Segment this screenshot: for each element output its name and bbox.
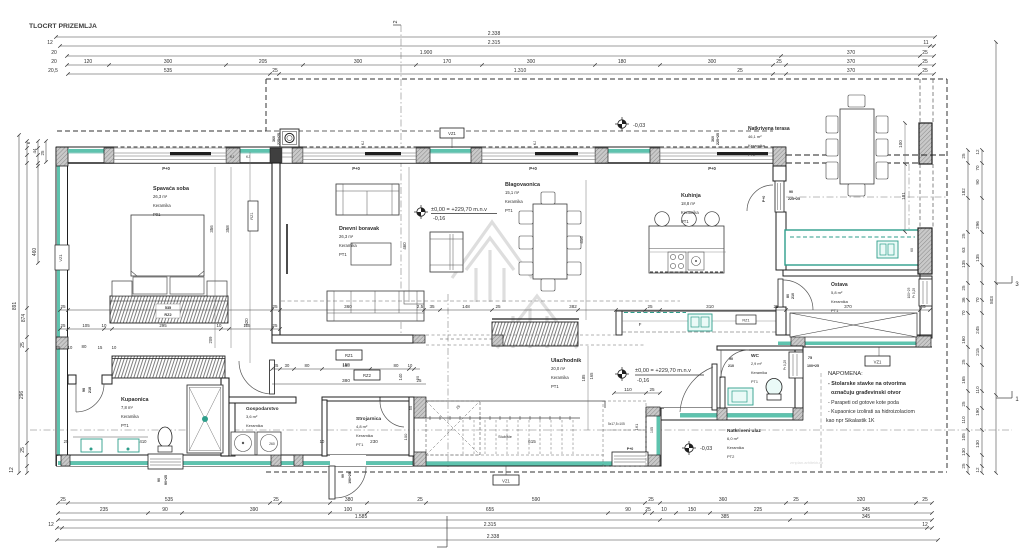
svg-text:110: 110 xyxy=(975,386,980,394)
svg-text:360: 360 xyxy=(344,304,352,309)
svg-text:25: 25 xyxy=(793,497,799,503)
wc door xyxy=(721,350,749,378)
svg-text:358: 358 xyxy=(225,225,230,233)
bottom outer wall xyxy=(56,454,426,456)
svg-text:120: 120 xyxy=(84,59,93,65)
svg-text:Keramika: Keramika xyxy=(246,423,264,428)
watermark logo xyxy=(452,222,577,348)
svg-text:RZ1: RZ1 xyxy=(742,319,749,323)
svg-text:Kuhinja: Kuhinja xyxy=(681,193,702,199)
svg-text:360: 360 xyxy=(711,136,715,142)
RZ boxes hall xyxy=(336,350,362,360)
svg-text:380: 380 xyxy=(342,378,350,384)
svg-text:WC: WC xyxy=(751,353,760,359)
svg-text:380: 380 xyxy=(345,497,354,503)
vertical dim hall xyxy=(587,346,589,430)
svg-text:296: 296 xyxy=(19,391,25,400)
svg-text:100+25: 100+25 xyxy=(807,364,819,368)
svg-text:25: 25 xyxy=(920,304,926,309)
elevation marker living xyxy=(414,211,428,213)
top dimension chain xyxy=(56,36,935,38)
svg-text:300: 300 xyxy=(164,59,173,65)
toilet bathroom xyxy=(158,427,172,447)
svg-text:295: 295 xyxy=(159,323,167,328)
svg-text:225+25: 225+25 xyxy=(277,133,281,145)
svg-text:-0,03: -0,03 xyxy=(633,123,645,129)
svg-text:PT1: PT1 xyxy=(121,423,129,428)
svg-text:370: 370 xyxy=(847,59,856,65)
svg-text:12: 12 xyxy=(47,40,53,46)
svg-text:10: 10 xyxy=(320,439,325,444)
svg-text:PT1: PT1 xyxy=(751,380,758,384)
hall dashed guide lines xyxy=(426,334,616,336)
svg-text:2.315: 2.315 xyxy=(488,40,501,46)
svg-text:2.338: 2.338 xyxy=(488,31,501,37)
svg-text:80: 80 xyxy=(305,363,310,368)
svg-text:Keramika: Keramika xyxy=(339,243,357,248)
svg-text:PT1: PT1 xyxy=(339,252,347,257)
svg-text:245: 245 xyxy=(975,326,980,334)
svg-text:25: 25 xyxy=(922,68,928,74)
svg-text:25: 25 xyxy=(647,304,653,309)
svg-text:20: 20 xyxy=(51,50,57,56)
svg-text:25: 25 xyxy=(272,304,278,309)
svg-text:110: 110 xyxy=(961,416,966,424)
svg-text:300: 300 xyxy=(708,59,717,65)
svg-text:140: 140 xyxy=(398,373,403,381)
sofa top xyxy=(336,184,399,215)
svg-text:12: 12 xyxy=(9,467,15,473)
svg-text:70: 70 xyxy=(975,165,980,171)
svg-text:150: 150 xyxy=(688,507,697,513)
svg-text:161: 161 xyxy=(634,423,639,430)
svg-text:25: 25 xyxy=(737,68,743,74)
svg-text:535: 535 xyxy=(165,497,174,503)
svg-text:382: 382 xyxy=(569,304,577,309)
svg-text:105: 105 xyxy=(650,427,654,433)
svg-text:25: 25 xyxy=(64,439,69,444)
svg-text:P+0: P+0 xyxy=(762,196,766,203)
top-right corner column xyxy=(773,147,786,166)
dining table xyxy=(533,204,567,279)
left outer wall xyxy=(55,147,57,466)
svg-text:25: 25 xyxy=(961,463,966,469)
svg-text:Keramika: Keramika xyxy=(551,375,569,380)
svg-text:26,3 m²: 26,3 m² xyxy=(153,194,168,199)
elevation marker hall xyxy=(615,373,629,375)
wc north wall xyxy=(717,346,803,350)
strojarnica walls xyxy=(322,397,414,401)
svg-text:165: 165 xyxy=(961,376,966,384)
VZ1 right xyxy=(865,356,890,366)
svg-text:Keramika: Keramika xyxy=(681,210,699,215)
grid marker 1 xyxy=(996,397,1012,399)
svg-text:P01: P01 xyxy=(153,212,161,217)
bottom teal continues under stairs xyxy=(426,462,656,466)
svg-text:25: 25 xyxy=(961,233,966,239)
entry mat/steps xyxy=(612,452,648,466)
washer dryer xyxy=(231,432,255,455)
svg-text:Keramika: Keramika xyxy=(727,445,745,450)
terrace pillar top xyxy=(919,123,932,164)
nightstands xyxy=(112,281,132,296)
svg-text:210: 210 xyxy=(728,364,734,368)
svg-text:RZ1: RZ1 xyxy=(345,353,354,358)
svg-text:PT1: PT1 xyxy=(681,219,689,224)
svg-text:356: 356 xyxy=(209,225,214,233)
svg-text:25: 25 xyxy=(495,304,501,309)
bedroom wardrobe RZ2 xyxy=(110,296,228,323)
svg-text:25: 25 xyxy=(60,497,66,503)
svg-text:±0,00 = +229,70 m.n.v: ±0,00 = +229,70 m.n.v xyxy=(635,368,691,374)
svg-text:135: 135 xyxy=(961,260,966,268)
svg-text:90: 90 xyxy=(162,507,168,513)
svg-text:15: 15 xyxy=(98,345,103,350)
svg-text:-0,16: -0,16 xyxy=(433,216,445,222)
svg-text:11: 11 xyxy=(923,40,928,46)
hall closet xyxy=(492,318,579,320)
svg-text:P+0: P+0 xyxy=(708,166,716,171)
svg-text:105: 105 xyxy=(82,323,90,328)
svg-text:25: 25 xyxy=(922,497,928,503)
svg-text:105: 105 xyxy=(961,433,966,441)
elevation marker terrace xyxy=(615,123,629,125)
svg-text:Kupaonica: Kupaonica xyxy=(121,397,150,403)
svg-text:±0,00 = +229,70 m.n.v: ±0,00 = +229,70 m.n.v xyxy=(431,207,487,213)
svg-text:181: 181 xyxy=(901,192,906,200)
interior dim row y329 xyxy=(60,328,280,330)
svg-text:215: 215 xyxy=(975,348,980,356)
svg-text:VZ1: VZ1 xyxy=(448,131,456,136)
svg-text:25: 25 xyxy=(961,401,966,407)
svg-text:25: 25 xyxy=(417,497,423,503)
svg-text:12: 12 xyxy=(975,467,980,473)
svg-text:874: 874 xyxy=(21,314,27,323)
shower xyxy=(187,385,223,453)
ostava east window xyxy=(919,279,932,306)
svg-text:25: 25 xyxy=(922,50,928,56)
terrace axis xyxy=(786,196,947,198)
hall north wall H1 xyxy=(272,335,413,343)
svg-text:1.900: 1.900 xyxy=(420,50,433,56)
porch dim xyxy=(614,392,660,394)
vertical dim living xyxy=(408,167,410,302)
bathroom window bottom xyxy=(148,454,183,469)
svg-text:P+0: P+0 xyxy=(529,166,537,171)
svg-text:460: 460 xyxy=(32,248,38,257)
svg-text:390: 390 xyxy=(250,507,259,513)
vertical dim terrace pillar xyxy=(904,123,906,232)
stairs strip xyxy=(426,400,605,402)
svg-text:-0,03: -0,03 xyxy=(700,446,712,452)
terrace edge dashed xyxy=(786,154,947,156)
ostava door xyxy=(778,279,783,307)
wc fixtures xyxy=(728,388,753,405)
kitchen east wall xyxy=(773,166,786,181)
svg-text:180: 180 xyxy=(618,59,627,65)
svg-text:891: 891 xyxy=(12,302,18,311)
svg-text:- Kupaonice izolirati sa hidro: - Kupaonice izolirati sa hidroizolaciom xyxy=(828,409,915,415)
svg-text:182: 182 xyxy=(961,188,966,196)
kitchen island xyxy=(649,226,724,273)
svg-text:535: 535 xyxy=(164,68,173,74)
long dashed guide y301 xyxy=(281,300,680,302)
svg-text:25: 25 xyxy=(773,304,779,309)
svg-text:P+0: P+0 xyxy=(352,166,360,171)
svg-text:PT1: PT1 xyxy=(551,384,559,389)
bathroom closet hatched xyxy=(112,356,225,378)
svg-text:360: 360 xyxy=(272,136,276,142)
ostava east wall xyxy=(920,276,932,338)
lobby door xyxy=(270,360,275,394)
svg-text:25: 25 xyxy=(961,153,966,159)
ostava south wall xyxy=(776,334,932,336)
armchair xyxy=(430,232,463,272)
chimney xyxy=(280,129,299,147)
svg-text:260: 260 xyxy=(269,442,275,446)
svg-text:20,5: 20,5 xyxy=(48,68,58,74)
svg-text:90+25: 90+25 xyxy=(164,475,168,485)
svg-text:130: 130 xyxy=(975,440,980,448)
svg-text:590: 590 xyxy=(532,497,541,503)
vertical dim dining xyxy=(585,180,587,320)
hall dim rows xyxy=(272,368,420,370)
coffee table xyxy=(351,243,391,265)
wc east wall + window xyxy=(795,350,803,412)
right dimension chain xyxy=(967,150,969,473)
section line y430 xyxy=(30,429,1012,431)
svg-text:300: 300 xyxy=(354,59,363,65)
svg-text:NAPOMENA:: NAPOMENA: xyxy=(828,371,863,377)
svg-text:- Parapeti od gotove kote poda: - Parapeti od gotove kote poda xyxy=(828,400,899,406)
svg-text:PT1: PT1 xyxy=(831,308,839,313)
svg-text:20,0 m²: 20,0 m² xyxy=(551,366,566,371)
terrace table xyxy=(840,109,874,184)
svg-text:Keramika: Keramika xyxy=(356,433,374,438)
terrace kitchen counter xyxy=(785,230,920,265)
strojarnica exterior door xyxy=(330,455,366,466)
svg-text:PT1: PT1 xyxy=(356,442,364,447)
grid line 2 bottom xyxy=(446,516,448,547)
svg-text:VZ1: VZ1 xyxy=(874,360,882,365)
svg-text:90: 90 xyxy=(789,190,793,194)
svg-text:Pr 0,25: Pr 0,25 xyxy=(783,360,787,371)
svg-text:Gospodarstvo: Gospodarstvo xyxy=(246,406,279,412)
svg-text:345: 345 xyxy=(862,507,871,513)
tv xyxy=(286,224,288,274)
svg-text:4,8 m²: 4,8 m² xyxy=(356,424,368,429)
svg-text:55: 55 xyxy=(408,405,413,410)
svg-text:70: 70 xyxy=(961,310,966,316)
svg-text:Keramika: Keramika xyxy=(153,203,171,208)
svg-text:520: 520 xyxy=(244,318,249,326)
svg-text:Strojarnica: Strojarnica xyxy=(356,416,381,422)
svg-text:10: 10 xyxy=(68,345,73,350)
svg-text:535: 535 xyxy=(165,306,171,310)
svg-text:PT2: PT2 xyxy=(727,454,735,459)
svg-text:25: 25 xyxy=(922,59,928,65)
gospodarstvo walls xyxy=(229,397,296,403)
entry porch west wall xyxy=(646,408,661,466)
svg-text:26,3 m²: 26,3 m² xyxy=(339,234,354,239)
svg-text:70: 70 xyxy=(975,297,980,303)
svg-text:370: 370 xyxy=(844,304,852,309)
top outer wall xyxy=(56,146,786,148)
svg-text:25: 25 xyxy=(645,507,651,513)
svg-text:30: 30 xyxy=(285,363,290,368)
svg-text:209: 209 xyxy=(208,336,213,344)
svg-text:P+0: P+0 xyxy=(162,166,170,171)
svg-text:25: 25 xyxy=(648,497,654,503)
svg-text:25: 25 xyxy=(273,323,278,328)
svg-text:148: 148 xyxy=(462,304,470,309)
svg-text:KJ: KJ xyxy=(246,155,250,159)
svg-text:80: 80 xyxy=(786,294,790,298)
svg-text:90: 90 xyxy=(729,357,733,361)
svg-text:60: 60 xyxy=(910,248,914,252)
svg-text:Dnevni boravak: Dnevni boravak xyxy=(339,226,379,232)
svg-text:655: 655 xyxy=(486,507,495,513)
svg-text:410: 410 xyxy=(140,439,148,444)
svg-text:Keramika: Keramika xyxy=(751,371,768,375)
svg-text:25: 25 xyxy=(273,497,279,503)
svg-text:VZ1: VZ1 xyxy=(58,254,63,262)
svg-text:80: 80 xyxy=(394,363,399,368)
svg-text:6,0 m²: 6,0 m² xyxy=(727,436,739,441)
porch columns left of door xyxy=(603,401,646,466)
svg-text:10: 10 xyxy=(112,345,117,350)
svg-text:Stubište: Stubište xyxy=(498,435,512,439)
svg-text:3,6 m²: 3,6 m² xyxy=(246,414,258,419)
svg-text:RZ1: RZ1 xyxy=(250,212,254,219)
svg-text:Keramika: Keramika xyxy=(121,414,139,419)
svg-text:10: 10 xyxy=(102,323,107,328)
svg-text:25: 25 xyxy=(274,363,279,368)
VZ1 bottom xyxy=(493,475,519,485)
VZ1 left wall xyxy=(55,245,69,270)
strojarnica door xyxy=(380,401,404,427)
svg-text:25: 25 xyxy=(20,447,26,453)
svg-text:P+0: P+0 xyxy=(627,447,634,451)
svg-text:25: 25 xyxy=(56,345,61,350)
kitchen-terrace door xyxy=(775,181,784,212)
svg-text:99: 99 xyxy=(341,474,345,478)
svg-text:25: 25 xyxy=(961,285,966,291)
svg-text:25: 25 xyxy=(61,323,66,328)
svg-text:345: 345 xyxy=(862,514,871,520)
svg-text:VZ1: VZ1 xyxy=(502,479,510,484)
grid marker 3 xyxy=(996,282,1012,284)
wc south wall xyxy=(646,407,803,409)
svg-text:370: 370 xyxy=(847,68,856,74)
svg-text:416: 416 xyxy=(579,236,584,244)
svg-text:2.315: 2.315 xyxy=(484,522,497,528)
svg-text:15,1 m²: 15,1 m² xyxy=(505,190,520,195)
svg-text:25: 25 xyxy=(776,59,782,65)
VZ1 top box xyxy=(440,128,464,138)
svg-text:205: 205 xyxy=(259,59,268,65)
svg-text:Ulaz/hodnik: Ulaz/hodnik xyxy=(551,358,581,364)
svg-text:25: 25 xyxy=(60,304,66,309)
svg-text:20: 20 xyxy=(51,59,57,65)
svg-text:RZ2: RZ2 xyxy=(363,373,372,378)
svg-text:300: 300 xyxy=(527,59,536,65)
svg-text:150: 150 xyxy=(342,362,350,367)
svg-text:100+25: 100+25 xyxy=(907,287,911,298)
svg-text:25: 25 xyxy=(649,387,655,392)
entry door xyxy=(712,364,717,410)
svg-text:185: 185 xyxy=(581,374,586,382)
svg-text:320: 320 xyxy=(857,497,866,503)
svg-text:RZ2: RZ2 xyxy=(164,313,171,317)
svg-text:44: 44 xyxy=(32,148,37,154)
svg-text:310: 310 xyxy=(706,304,714,309)
svg-text:F: F xyxy=(639,322,642,327)
svg-text:370: 370 xyxy=(847,50,856,56)
svg-text:TLOCRT PRIZEMLJA: TLOCRT PRIZEMLJA xyxy=(29,23,97,30)
svg-text:12: 12 xyxy=(922,522,928,528)
svg-text:35: 35 xyxy=(429,304,435,309)
elevation marker porch xyxy=(682,447,696,449)
svg-text:2,5: 2,5 xyxy=(417,304,424,309)
svg-text:165: 165 xyxy=(589,372,594,380)
bathroom north wall xyxy=(68,375,76,384)
svg-text:90: 90 xyxy=(157,478,161,482)
svg-text:25: 25 xyxy=(272,68,278,74)
bathroom door xyxy=(76,384,104,412)
chimney pier dark xyxy=(270,148,282,163)
roof outline dashed xyxy=(266,78,947,80)
bottom dimension chain xyxy=(58,502,932,504)
svg-text:25: 25 xyxy=(961,359,966,365)
svg-text:PT1: PT1 xyxy=(505,208,513,213)
svg-text:5,8 m²: 5,8 m² xyxy=(831,290,843,295)
svg-text:25: 25 xyxy=(40,150,45,156)
svg-text:25: 25 xyxy=(20,342,26,348)
svg-text:12: 12 xyxy=(48,522,54,528)
svg-text:100: 100 xyxy=(403,433,408,440)
svg-text:Keramika: Keramika xyxy=(505,199,523,204)
svg-text:135: 135 xyxy=(975,254,980,262)
svg-text:KJ: KJ xyxy=(361,141,365,145)
svg-text:KJ: KJ xyxy=(230,155,234,159)
svg-text:25: 25 xyxy=(415,375,420,380)
svg-text:Blagovaonica: Blagovaonica xyxy=(505,182,541,188)
svg-text:PT2: PT2 xyxy=(748,152,756,157)
svg-text:75: 75 xyxy=(808,356,812,360)
svg-text:12: 12 xyxy=(975,149,980,155)
svg-text:Keramika: Keramika xyxy=(748,143,766,148)
wall bedroom/living V1 xyxy=(272,163,280,340)
svg-text:615: 615 xyxy=(528,439,536,444)
svg-text:7,8 m²: 7,8 m² xyxy=(121,405,133,410)
svg-text:10: 10 xyxy=(661,507,667,513)
svg-text:zrnplan.arhitektura: zrnplan.arhitektura xyxy=(790,460,824,465)
svg-text:235: 235 xyxy=(100,507,109,513)
svg-text:110: 110 xyxy=(624,387,632,393)
svg-text:296: 296 xyxy=(975,221,980,229)
svg-text:90: 90 xyxy=(625,507,631,513)
svg-text:Natkrivena terasa: Natkrivena terasa xyxy=(748,126,790,132)
svg-text:90: 90 xyxy=(82,388,86,392)
svg-text:kao npr Sikalastik 1K: kao npr Sikalastik 1K xyxy=(826,418,875,424)
svg-text:130: 130 xyxy=(961,448,966,456)
svg-text:100: 100 xyxy=(898,140,903,148)
svg-text:Pr 0,25: Pr 0,25 xyxy=(912,288,916,299)
kitchen counter hall xyxy=(616,310,776,312)
svg-text:460: 460 xyxy=(402,242,407,250)
svg-text:KJ: KJ xyxy=(533,141,537,145)
